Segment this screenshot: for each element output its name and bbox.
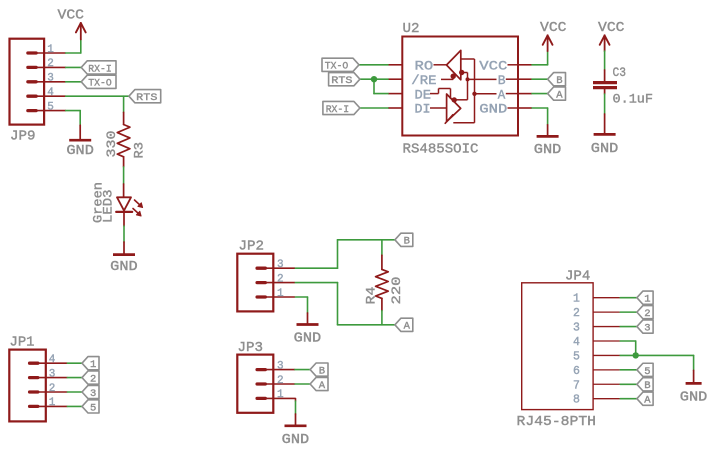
svg-text:GND: GND <box>680 391 708 406</box>
svg-text:3: 3 <box>573 322 580 335</box>
svg-text:1: 1 <box>277 288 284 300</box>
svg-text:2: 2 <box>49 383 56 395</box>
svg-text:3: 3 <box>49 368 56 380</box>
svg-text:4: 4 <box>573 336 580 349</box>
svg-text:5: 5 <box>47 101 54 113</box>
svg-text:1: 1 <box>277 389 284 401</box>
svg-text:TX-O: TX-O <box>325 61 348 73</box>
svg-text:VCC: VCC <box>58 8 85 23</box>
svg-text:7: 7 <box>573 379 580 392</box>
svg-text:1: 1 <box>49 397 56 409</box>
svg-text:220: 220 <box>389 277 404 305</box>
svg-text:2: 2 <box>573 307 580 320</box>
svg-text:RX-I: RX-I <box>326 104 349 116</box>
svg-text:4: 4 <box>49 354 56 366</box>
svg-text:LED3: LED3 <box>101 190 116 224</box>
svg-text:B: B <box>556 75 562 87</box>
svg-text:DI: DI <box>415 102 431 117</box>
svg-text:B: B <box>404 236 410 248</box>
svg-text:RO: RO <box>415 59 434 74</box>
svg-text:GND: GND <box>282 433 310 448</box>
svg-text:RX-I: RX-I <box>88 63 111 75</box>
svg-text:VCC: VCC <box>479 59 507 74</box>
svg-text:JP9: JP9 <box>10 130 36 145</box>
svg-text:1: 1 <box>573 293 580 306</box>
svg-text:VCC: VCC <box>598 21 625 36</box>
svg-text:1: 1 <box>47 44 54 56</box>
svg-text:0.1uF: 0.1uF <box>613 92 654 107</box>
svg-text:330: 330 <box>104 131 119 158</box>
svg-text:JP4: JP4 <box>565 270 590 285</box>
svg-text:A: A <box>644 395 651 407</box>
svg-text:R4: R4 <box>364 286 379 304</box>
svg-text:3: 3 <box>644 322 650 334</box>
svg-text:8: 8 <box>573 394 580 407</box>
svg-text:A: A <box>319 380 326 392</box>
svg-text:/RE: /RE <box>411 73 436 88</box>
svg-text:1: 1 <box>90 359 96 371</box>
svg-text:GND: GND <box>110 260 138 275</box>
svg-text:5: 5 <box>573 350 580 363</box>
svg-text:JP3: JP3 <box>238 341 264 356</box>
svg-text:6: 6 <box>573 365 580 378</box>
svg-text:B: B <box>319 366 325 378</box>
svg-text:3: 3 <box>90 388 96 400</box>
svg-text:GND: GND <box>591 142 619 157</box>
svg-text:RTS: RTS <box>331 75 352 87</box>
svg-text:R3: R3 <box>132 142 147 159</box>
svg-text:GND: GND <box>294 332 322 347</box>
svg-text:4: 4 <box>47 87 54 99</box>
svg-text:RS485SOIC: RS485SOIC <box>403 143 479 158</box>
svg-text:5: 5 <box>644 366 650 378</box>
svg-text:DE: DE <box>415 87 432 102</box>
svg-text:A: A <box>498 87 506 102</box>
svg-text:VCC: VCC <box>540 21 567 36</box>
svg-text:B: B <box>498 73 506 88</box>
svg-text:A: A <box>556 90 563 102</box>
svg-text:2: 2 <box>90 374 96 386</box>
svg-text:GND: GND <box>479 102 507 117</box>
svg-text:2: 2 <box>277 273 284 285</box>
svg-text:B: B <box>644 380 650 392</box>
svg-text:2: 2 <box>277 375 284 387</box>
svg-text:C3: C3 <box>613 65 627 80</box>
svg-text:5: 5 <box>90 402 96 414</box>
svg-text:2: 2 <box>47 58 54 70</box>
svg-text:2: 2 <box>644 308 650 320</box>
svg-text:RJ45-8PTH: RJ45-8PTH <box>517 415 597 430</box>
svg-text:GND: GND <box>534 143 562 158</box>
svg-text:1: 1 <box>644 294 650 306</box>
svg-text:A: A <box>404 321 411 333</box>
svg-text:GND: GND <box>66 144 94 159</box>
svg-text:3: 3 <box>277 259 284 271</box>
svg-text:U2: U2 <box>403 22 420 37</box>
svg-text:TX-O: TX-O <box>88 78 111 90</box>
svg-text:3: 3 <box>47 73 54 85</box>
svg-text:JP2: JP2 <box>239 240 265 255</box>
svg-text:RTS: RTS <box>136 92 157 104</box>
svg-text:3: 3 <box>277 360 284 372</box>
svg-text:JP1: JP1 <box>10 336 35 351</box>
